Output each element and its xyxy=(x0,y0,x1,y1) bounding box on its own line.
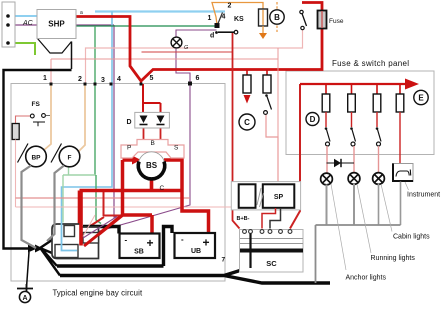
engine block body xyxy=(52,224,99,259)
terminal strip SC xyxy=(240,230,304,273)
diode 2 xyxy=(157,116,165,125)
svg-text:-: - xyxy=(125,236,128,245)
wire: red diode outputs to B plate xyxy=(144,127,161,148)
svg-text:FS: FS xyxy=(32,101,41,108)
fuse and switch panel box xyxy=(286,71,434,155)
lamp cabin xyxy=(373,173,385,185)
wire: light blue connector to SHP xyxy=(8,15,37,17)
switch d below KS xyxy=(210,30,238,39)
wire: green left drop to engine xyxy=(62,175,64,223)
bilge pump motor BP xyxy=(18,144,47,167)
shore power box xyxy=(231,182,300,210)
wire: red node5 stub xyxy=(140,81,142,84)
panel fuse 4 xyxy=(396,94,404,112)
connector block xyxy=(2,2,15,47)
panel fuse 2 xyxy=(348,94,356,112)
svg-text:AC: AC xyxy=(22,20,34,27)
lamp running xyxy=(348,173,360,185)
wire: pink horizontal y207 xyxy=(16,206,300,208)
svg-text:S: S xyxy=(174,145,179,152)
svg-text:2: 2 xyxy=(78,76,82,83)
wire: red starter cable into engine xyxy=(79,191,83,246)
wire: red panel fuse feeds xyxy=(326,84,400,94)
svg-text:B: B xyxy=(151,140,155,147)
wire: pink below bilge fuse xyxy=(15,140,17,208)
wire: gray BP return xyxy=(22,166,37,249)
wire: black UB negative xyxy=(164,227,173,267)
battery switch BS xyxy=(138,152,164,179)
wire: red alternator diagonal xyxy=(84,215,123,246)
battery UB xyxy=(175,233,216,258)
wire: tan node1 to bilge pump xyxy=(44,84,51,150)
wire: black SC T2 down to ground bus xyxy=(249,234,251,269)
panel fuse 3 xyxy=(373,94,381,112)
svg-text:Anchor lights: Anchor lights xyxy=(346,275,387,282)
wire: red KS-d down to shore power box xyxy=(233,33,240,229)
arrow: red bus arrow to E xyxy=(405,79,419,90)
wire: pink diag into engine xyxy=(83,215,95,237)
SP unit xyxy=(263,184,295,208)
svg-text:E: E xyxy=(418,94,424,103)
wire: pale red x278 upper xyxy=(277,48,279,137)
wire: green horizontal junction xyxy=(63,174,96,176)
box SHP xyxy=(37,10,76,39)
wire: black lower ground bus xyxy=(60,268,330,283)
wire: black SP B- to SC xyxy=(270,208,281,229)
svg-text:6: 6 xyxy=(196,75,200,82)
SC terminals xyxy=(243,230,292,234)
svg-text:Running lights: Running lights xyxy=(371,255,416,262)
switch below fuse B xyxy=(264,94,272,114)
svg-text:3: 3 xyxy=(101,77,105,84)
svg-text:Fuse & switch panel: Fuse & switch panel xyxy=(332,59,409,68)
node E xyxy=(414,90,428,104)
battery SB xyxy=(120,234,160,259)
arrow: orange down arrow xyxy=(259,33,267,39)
wire: light blue inside engine xyxy=(62,223,78,251)
wire: tan node2 to F motor xyxy=(78,84,85,152)
diode 1 xyxy=(140,116,148,125)
svg-text:C: C xyxy=(244,118,250,127)
svg-text:4: 4 xyxy=(117,76,121,83)
node A xyxy=(19,291,30,302)
ground symbol at A xyxy=(17,284,33,292)
wire: pink long horizontal node1 xyxy=(51,58,278,60)
wire: black ground fan spokes xyxy=(40,240,60,276)
wire: pink node1 drop xyxy=(50,59,52,84)
node B (circled letter) xyxy=(270,10,284,24)
svg-text:a: a xyxy=(80,10,83,16)
wire: pink panel switch return xyxy=(86,30,303,84)
wire: red SP B+ to SC xyxy=(262,208,276,229)
wire: red feed to alternator diodes xyxy=(143,84,161,116)
wire: red drop x103.5 to junction xyxy=(88,192,123,228)
wire: green F motor branch xyxy=(68,167,70,176)
svg-text:Fuse: Fuse xyxy=(329,18,344,25)
engine bay enclosure box xyxy=(11,84,225,282)
svg-text:G: G xyxy=(184,45,189,51)
fuse: bilge fuse xyxy=(12,124,19,140)
svg-text:D: D xyxy=(310,115,316,124)
wire: red BS-C to starter xyxy=(80,178,183,225)
wire: orange below fuse xyxy=(262,26,264,33)
wire: orange dashed through meter B xyxy=(276,2,278,9)
top right main switch xyxy=(300,10,307,29)
panel switch 1 xyxy=(325,127,330,146)
main fuse top right xyxy=(318,11,327,29)
wire: green connector stub xyxy=(8,43,35,55)
labels 1-6 xyxy=(43,75,200,84)
wire: red fuse A feed xyxy=(246,70,248,76)
fuse A (to node C) xyxy=(243,75,251,93)
wire: red BS-S to UB+ xyxy=(164,160,209,234)
wire: light blue SHP to key switch xyxy=(95,10,225,12)
svg-text:Instrument: Instrument xyxy=(407,192,440,199)
wire: main red SHP output bus xyxy=(76,3,322,82)
diode between anchor and running feeds xyxy=(327,159,355,167)
wire: black SHP ground switch xyxy=(38,39,72,54)
wire: green SHP to key switch xyxy=(76,25,217,27)
svg-text:B+B-: B+B- xyxy=(237,216,250,222)
SP inner square left xyxy=(239,184,256,208)
svg-text:SC: SC xyxy=(266,259,277,268)
wire: gray lamp returns xyxy=(327,184,355,225)
arrow: red into BS P xyxy=(132,156,141,165)
node D xyxy=(306,113,319,126)
wire: light blue down col 4 to engine xyxy=(62,12,113,223)
svg-text:Cabin lights: Cabin lights xyxy=(393,234,430,241)
wire: purple key switch feed xyxy=(176,30,217,37)
wire: gray F return xyxy=(47,166,64,242)
wire: black SB negative xyxy=(83,227,119,234)
svg-text:UB: UB xyxy=(191,248,201,255)
svg-text:P: P xyxy=(127,145,131,152)
diode box D xyxy=(127,112,170,128)
lamp G xyxy=(171,37,182,48)
wire: pink horizontal y198 xyxy=(16,197,191,199)
panel fuse 1 xyxy=(322,94,330,112)
key switch KS xyxy=(208,3,245,29)
separator marks xyxy=(257,188,264,207)
wire: red BS-P to SB+ and engine xyxy=(84,160,152,246)
svg-text:-: - xyxy=(181,235,184,244)
svg-text:1: 1 xyxy=(43,75,47,82)
svg-text:d: d xyxy=(210,33,214,40)
svg-text:4: 4 xyxy=(222,14,226,21)
fuse B (shore circuit) xyxy=(263,75,271,93)
instrument gauge box xyxy=(393,164,414,182)
svg-text:SP: SP xyxy=(274,194,284,201)
wire: red below panel fuses xyxy=(326,112,400,164)
wire: green right drop to engine xyxy=(96,175,101,224)
node C xyxy=(239,114,255,130)
wire: pale red fuse B switch to SP box xyxy=(266,114,278,182)
svg-text:Typical engine bay circuit: Typical engine bay circuit xyxy=(53,289,143,298)
svg-text:2: 2 xyxy=(228,3,232,10)
wire: black ground down left side xyxy=(71,42,73,70)
svg-text:C: C xyxy=(160,185,165,192)
svg-text:A: A xyxy=(22,295,27,302)
svg-text:+: + xyxy=(203,236,210,250)
wire: red panel bus xyxy=(300,83,406,85)
wire: purple diag into engine xyxy=(83,217,117,239)
svg-text:BS: BS xyxy=(146,161,158,170)
arrow: red down to node C xyxy=(244,95,251,104)
panel switch 3 xyxy=(376,127,381,146)
arrow chevrons at ground stud xyxy=(28,245,37,253)
wire: black negative bus xyxy=(57,264,164,268)
svg-text:BP: BP xyxy=(31,155,41,162)
svg-text:F: F xyxy=(68,155,72,162)
wire: green down col 3 xyxy=(94,26,96,175)
connector terminals xyxy=(6,14,10,45)
wire: red KS-d horizontal xyxy=(142,51,234,53)
svg-text:D: D xyxy=(127,119,132,126)
wire: purple down to engine xyxy=(114,25,117,217)
wire: gray return bus xyxy=(316,225,401,283)
node terminals 1-6 on box edge xyxy=(50,82,193,86)
panel switch 2 xyxy=(350,127,355,146)
svg-text:B: B xyxy=(274,13,280,22)
wire: purple node 6 down xyxy=(98,84,190,232)
motor F xyxy=(51,144,80,167)
leader lines to labels xyxy=(331,182,409,270)
lamp anchor xyxy=(321,173,333,185)
wire: purple below lamp G to node 6 xyxy=(176,48,190,84)
battery switch plate xyxy=(121,140,184,159)
wire: AC purple from connector xyxy=(8,24,114,26)
svg-text:SB: SB xyxy=(134,249,144,256)
svg-text:5: 5 xyxy=(150,75,154,82)
float switch FS xyxy=(30,101,50,126)
svg-text:KS: KS xyxy=(234,16,244,23)
wire: pale red lamp feeds xyxy=(327,146,379,174)
svg-text:+: + xyxy=(147,236,154,250)
fuse F-KS (orange circuit) xyxy=(259,9,268,26)
wire: red panel bus down to SC xyxy=(290,84,300,229)
wire: red fuse B feed xyxy=(266,70,268,76)
svg-text:7: 7 xyxy=(222,257,226,264)
svg-text:SHP: SHP xyxy=(48,20,65,29)
wire: pink FS float switch feed xyxy=(16,116,31,124)
wire: black stem to node A xyxy=(27,252,30,288)
svg-text:1: 1 xyxy=(208,15,212,22)
wire: orange key switch to fuse xyxy=(212,3,263,25)
